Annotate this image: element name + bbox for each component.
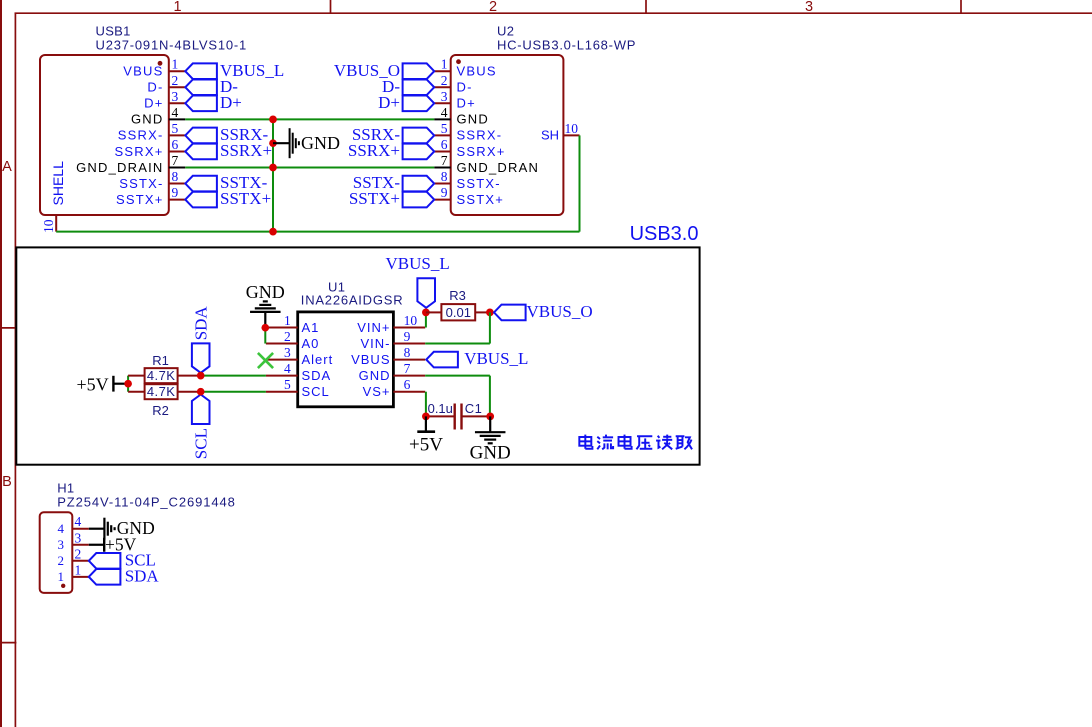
USB1 pin 9 (SSTX+) <box>169 199 186 201</box>
svg-text:1: 1 <box>58 569 65 584</box>
svg-text:+5V: +5V <box>77 375 109 395</box>
svg-text:6: 6 <box>441 137 448 152</box>
svg-text:R1: R1 <box>152 353 169 368</box>
svg-text:U2: U2 <box>497 24 514 39</box>
connector H1 body <box>40 512 73 593</box>
svg-text:SCL: SCL <box>191 428 210 459</box>
svg-text:C1: C1 <box>465 401 483 416</box>
svg-text:2: 2 <box>58 553 65 568</box>
junction R3/VBUS_O <box>486 309 494 317</box>
wire A0 to gnd <box>264 328 266 344</box>
svg-text:SHELL: SHELL <box>50 161 66 206</box>
svg-text:4: 4 <box>172 105 179 120</box>
svg-text:GND: GND <box>131 112 164 127</box>
wire GND pin7 to C1 <box>425 375 490 377</box>
wire +5V split <box>127 376 129 392</box>
svg-text:5: 5 <box>172 121 179 136</box>
svg-text:GND: GND <box>246 282 285 302</box>
svg-text:USB3.0: USB3.0 <box>630 223 699 245</box>
sheet border inner <box>14 13 16 727</box>
wire SCL row <box>201 391 266 393</box>
svg-text:8: 8 <box>172 169 179 184</box>
svg-text:6: 6 <box>404 377 411 392</box>
svg-text:2: 2 <box>172 73 179 88</box>
svg-text:SSTX+: SSTX+ <box>116 192 164 207</box>
svg-text:VBUS_L: VBUS_L <box>386 254 450 273</box>
svg-text:3: 3 <box>75 530 82 545</box>
U2 pin 9 (SSTX+) <box>434 199 451 201</box>
svg-text:0.01: 0.01 <box>446 305 471 320</box>
H1 pin-1 marker dot <box>61 584 65 588</box>
wire VIN+ riser <box>425 312 427 327</box>
svg-text:9: 9 <box>404 329 411 344</box>
svg-text:GND: GND <box>457 112 490 127</box>
junction SDA <box>197 372 205 380</box>
wire GND_DRAIN net (pin7 row) <box>185 167 434 169</box>
svg-text:SSTX+: SSTX+ <box>220 189 271 208</box>
svg-text:0.1u: 0.1u <box>428 401 453 416</box>
svg-text:SSTX+: SSTX+ <box>457 192 505 207</box>
U1 pin 9 (VIN-) <box>393 343 425 345</box>
net flag SSRX- <box>185 128 217 144</box>
svg-text:3: 3 <box>172 89 179 104</box>
svg-text:GND_DRAIN: GND_DRAIN <box>76 160 163 175</box>
svg-text:VBUS_L: VBUS_L <box>464 349 528 368</box>
U1 pin 7 (GND) <box>393 375 425 377</box>
svg-text:4.7K: 4.7K <box>147 384 175 399</box>
svg-text:8: 8 <box>441 169 448 184</box>
svg-text:D+: D+ <box>220 93 242 112</box>
net flag SSRX+ <box>403 144 435 160</box>
svg-text:1: 1 <box>441 57 448 72</box>
U2 pin 4 (GND) <box>434 118 451 120</box>
U1 pin 10 (VIN+) <box>393 327 425 329</box>
H1 pin 4 <box>72 528 89 530</box>
svg-text:7: 7 <box>172 153 179 168</box>
USB1 pin 7 (GND_DRAIN) <box>169 167 186 169</box>
U2 pin 1 (VBUS) <box>434 70 451 72</box>
svg-text:H1: H1 <box>57 481 74 496</box>
svg-text:SSRX+: SSRX+ <box>457 144 506 159</box>
svg-text:3: 3 <box>284 345 291 360</box>
svg-text:VIN+: VIN+ <box>357 320 390 335</box>
H1 pin 3 <box>72 544 89 546</box>
net flag VBUS_O <box>403 63 435 79</box>
svg-text:VBUS_O: VBUS_O <box>527 302 593 321</box>
U1 pin 8 (VBUS) <box>393 359 425 361</box>
junction C1 left <box>422 413 430 421</box>
svg-text:R3: R3 <box>449 288 466 303</box>
wire SDA row <box>201 375 266 377</box>
net flag D+ <box>185 96 217 112</box>
junction at U1 pin1 <box>261 324 269 332</box>
connector USB1 body <box>40 55 169 215</box>
U2 pin 2 (D-) <box>434 86 451 88</box>
USB1 pin 1 (VBUS) <box>169 70 186 72</box>
svg-text:2: 2 <box>284 329 291 344</box>
frame tick x=330 <box>330 0 332 13</box>
junction at 273,118 <box>269 116 277 124</box>
wire VIN- riser <box>489 312 491 343</box>
net flag SDA <box>192 343 210 373</box>
frame tick x=961 <box>960 0 962 13</box>
svg-text:6: 6 <box>172 137 179 152</box>
svg-text:B: B <box>2 474 12 490</box>
net flag SSTX+ <box>403 192 435 208</box>
junction at 273,143 <box>269 139 277 147</box>
svg-text:1: 1 <box>75 562 82 577</box>
svg-text:INA226AIDGSR: INA226AIDGSR <box>301 293 404 308</box>
svg-text:SSRX-: SSRX- <box>118 128 164 143</box>
svg-text:SDA: SDA <box>191 306 210 341</box>
U1 pin 4 (SDA) <box>266 375 298 377</box>
svg-text:7: 7 <box>404 361 411 376</box>
svg-text:GND: GND <box>470 443 511 464</box>
frame tick y=327.9 <box>0 327 16 329</box>
net flag SSTX- <box>185 176 217 192</box>
ground GND (H1) <box>103 518 105 540</box>
svg-text:7: 7 <box>441 153 448 168</box>
svg-text:PZ254V-11-04P_C2691448: PZ254V-11-04P_C2691448 <box>57 495 236 510</box>
section label dian liu dian ya du qu <box>579 435 692 450</box>
wire VS+ pin6 to C1 <box>425 392 427 417</box>
USB1 pin 6 (SSRX+) <box>169 150 186 152</box>
ground GND above U1 (A1/A0) <box>264 312 266 328</box>
U2 pin 3 (D+) <box>434 102 451 104</box>
USB1 pin 8 (SSTX-) <box>169 183 186 185</box>
U1 pin 6 (VS+) <box>393 391 425 393</box>
U1 pin 1 (A1) <box>266 327 298 329</box>
USB1 pin 4 (GND) <box>169 118 186 120</box>
svg-text:4.7K: 4.7K <box>147 368 175 383</box>
junction SCL <box>197 388 205 396</box>
frame tick y=642.6 <box>0 642 16 644</box>
svg-text:SSTX-: SSTX- <box>457 176 501 191</box>
svg-text:+5V: +5V <box>409 435 443 456</box>
U1 pin 5 (SCL) <box>266 391 298 393</box>
wire bottom shield run <box>56 231 579 233</box>
svg-text:5: 5 <box>441 121 448 136</box>
USB1 pin 10 (SHELL) <box>55 215 57 232</box>
net flag VBUS_L <box>417 278 435 308</box>
svg-text:D+: D+ <box>378 93 400 112</box>
svg-text:3: 3 <box>441 89 448 104</box>
net flag VBUS_O <box>494 305 526 321</box>
USB1 pin-1 marker dot <box>158 61 163 66</box>
net flag D+ <box>403 96 435 112</box>
frame tick x=646 <box>645 0 647 13</box>
svg-text:4: 4 <box>284 361 291 376</box>
svg-text:D-: D- <box>457 80 473 95</box>
svg-text:2: 2 <box>75 546 82 561</box>
junction at 273,164.8 <box>269 164 277 172</box>
USB1 pin 5 (SSRX-) <box>169 134 186 136</box>
svg-text:SH: SH <box>541 128 559 143</box>
power flag +5V (H1) <box>103 538 105 552</box>
net flag SSRX- <box>403 128 435 144</box>
svg-text:2: 2 <box>441 73 448 88</box>
svg-text:8: 8 <box>404 345 411 360</box>
sheet border outer <box>0 0 2 727</box>
U1 pin 2 (A0) <box>266 343 298 345</box>
net flag VBUS_L <box>426 352 458 368</box>
svg-text:D+: D+ <box>144 96 163 111</box>
svg-text:A0: A0 <box>302 336 320 351</box>
svg-text:R2: R2 <box>152 403 169 418</box>
junction C1 right <box>486 413 494 421</box>
svg-text:GND: GND <box>301 133 340 153</box>
svg-text:SCL: SCL <box>302 384 330 399</box>
ground GND (below C1) <box>489 416 491 432</box>
svg-text:2: 2 <box>489 0 497 15</box>
svg-text:3: 3 <box>58 537 65 552</box>
svg-text:SSTX+: SSTX+ <box>349 189 400 208</box>
junction at 273,231.4 <box>269 228 277 236</box>
wire GND net (pin4 row) <box>185 118 434 120</box>
svg-text:1: 1 <box>172 57 179 72</box>
ground GND (USB section) <box>273 142 290 144</box>
svg-text:GND: GND <box>359 368 391 383</box>
svg-text:1: 1 <box>173 0 181 15</box>
svg-text:Alert: Alert <box>302 352 334 367</box>
USB1 pin 2 (D-) <box>169 86 186 88</box>
junction at +5V <box>124 380 132 388</box>
svg-text:SSRX+: SSRX+ <box>115 144 164 159</box>
U2 pin 6 (SSRX+) <box>434 150 451 152</box>
wire U2 SH drop <box>579 135 581 231</box>
svg-text:SDA: SDA <box>302 368 332 383</box>
USB1 pin 3 (D+) <box>169 102 186 104</box>
net flag SCL <box>192 395 210 425</box>
net flag SCL <box>89 553 121 569</box>
svg-text:9: 9 <box>172 185 179 200</box>
svg-text:10: 10 <box>404 313 418 328</box>
svg-text:4: 4 <box>441 105 448 120</box>
H1 pin 2 <box>72 560 89 562</box>
net flag SSTX+ <box>185 192 217 208</box>
svg-text:VIN-: VIN- <box>361 336 391 351</box>
svg-text:D-: D- <box>147 80 163 95</box>
svg-text:SSRX+: SSRX+ <box>220 141 272 160</box>
net flag D- <box>403 79 435 95</box>
net flag VBUS_L <box>185 63 217 79</box>
net flag D- <box>185 79 217 95</box>
svg-text:4: 4 <box>75 514 82 529</box>
svg-text:SDA: SDA <box>125 566 160 585</box>
svg-text:A1: A1 <box>302 320 320 335</box>
power flag +5V (below C1) <box>425 416 427 431</box>
net flag SSTX- <box>403 176 435 192</box>
svg-text:VBUS: VBUS <box>351 352 390 367</box>
svg-text:USB1: USB1 <box>96 24 131 39</box>
svg-text:U237-091N-4BLVS10-1: U237-091N-4BLVS10-1 <box>96 38 248 53</box>
svg-text:10: 10 <box>41 219 56 233</box>
U1 pin 3 (Alert) <box>266 359 298 361</box>
svg-text:9: 9 <box>441 185 448 200</box>
U2 pin 5 (SSRX-) <box>434 134 451 136</box>
svg-text:GND_DRAN: GND_DRAN <box>457 160 540 175</box>
H1 pin 1 <box>72 576 89 578</box>
svg-text:SSTX-: SSTX- <box>119 176 163 191</box>
junction VBUS_L/R3 <box>422 309 430 317</box>
svg-text:5: 5 <box>284 377 291 392</box>
svg-text:3: 3 <box>805 0 813 15</box>
net flag SSRX+ <box>185 144 217 160</box>
U1 body <box>298 312 394 407</box>
svg-text:A: A <box>2 159 12 175</box>
svg-text:10: 10 <box>565 121 579 136</box>
svg-text:VBUS: VBUS <box>457 64 497 79</box>
svg-text:D+: D+ <box>457 96 476 111</box>
svg-text:1: 1 <box>284 313 291 328</box>
section box current/voltage readout <box>16 247 699 464</box>
svg-text:4: 4 <box>58 521 65 536</box>
wire VIN- row <box>425 343 490 345</box>
svg-text:VS+: VS+ <box>363 384 391 399</box>
wire H1 pin3 to +5V <box>89 544 104 546</box>
svg-text:HC-USB3.0-L168-WP: HC-USB3.0-L168-WP <box>497 38 636 53</box>
svg-text:SSRX-: SSRX- <box>457 128 503 143</box>
U2 pin 10 (SH) <box>563 134 579 136</box>
net flag SDA <box>89 569 121 585</box>
svg-text:SSRX+: SSRX+ <box>348 141 400 160</box>
U2 pin-1 marker dot <box>456 59 461 64</box>
svg-text:VBUS: VBUS <box>123 64 163 79</box>
wire H1 pin4 to ground <box>89 528 105 530</box>
no-connect X on U1 pin3 (Alert) <box>258 353 273 368</box>
U2 pin 8 (SSTX-) <box>434 183 451 185</box>
U2 pin 7 (GND_DRAN) <box>434 167 451 169</box>
connector U2 body <box>451 55 564 215</box>
wire vertical gnd bus x=273 <box>272 119 274 231</box>
